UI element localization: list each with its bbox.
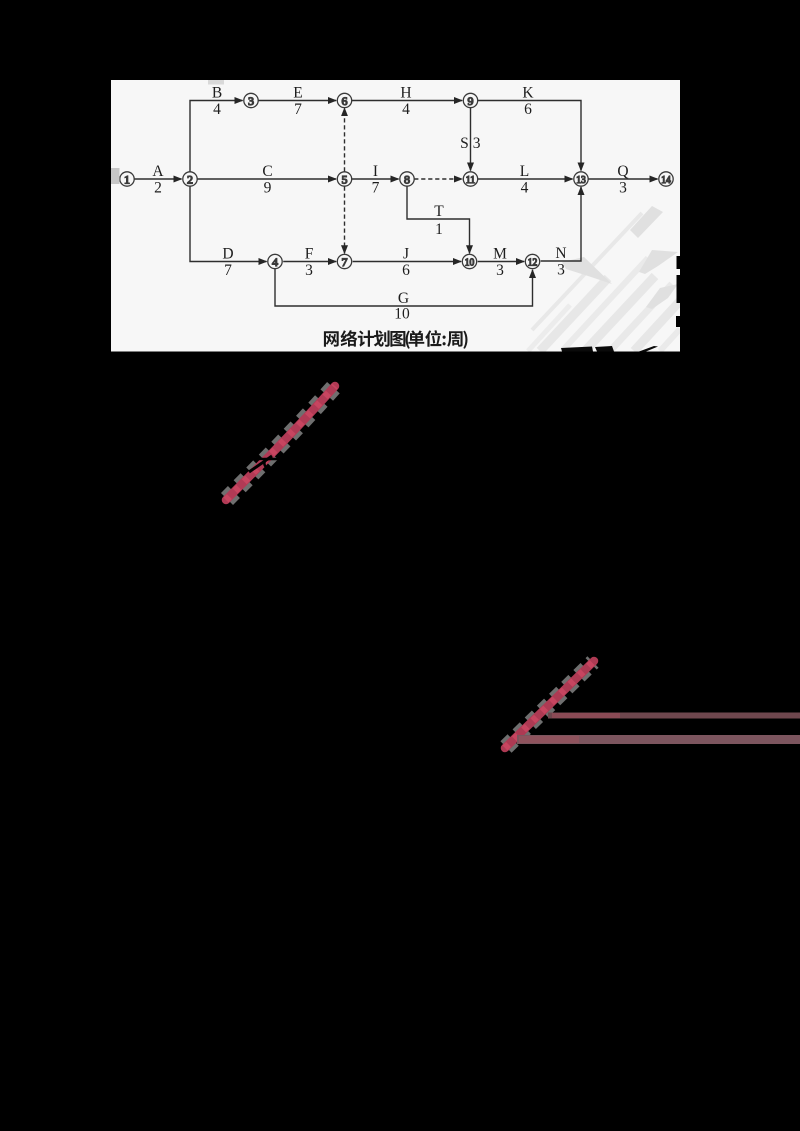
node 1 circle — [120, 172, 134, 186]
svg-text:7: 7 — [342, 255, 348, 269]
maroon band 1 — [548, 713, 800, 719]
svg-text:E: E — [293, 85, 302, 102]
svg-text:F: F — [305, 246, 314, 263]
node 7 circle — [337, 254, 351, 268]
node 9 circle — [463, 93, 477, 107]
svg-text:11: 11 — [466, 175, 476, 186]
node circles — [120, 93, 673, 268]
svg-text:7: 7 — [372, 180, 380, 197]
svg-text:N: N — [555, 245, 566, 262]
black squiggle loop — [264, 459, 270, 468]
svg-text:4: 4 — [402, 101, 410, 118]
white panel — [111, 80, 680, 352]
black squiggle slash — [249, 456, 272, 472]
svg-text:1: 1 — [124, 172, 130, 186]
node 14 circle — [659, 172, 673, 186]
svg-text:L: L — [520, 163, 529, 180]
node 3 circle — [244, 93, 258, 107]
red pen stroke upper (gray halo) — [227, 387, 334, 499]
svg-text:T: T — [434, 203, 444, 220]
svg-text:D: D — [222, 246, 233, 263]
svg-text:4: 4 — [521, 180, 529, 197]
svg-text:9: 9 — [468, 94, 474, 108]
maroon band 2 — [517, 735, 800, 744]
node 10 circle — [462, 254, 476, 268]
svg-text:3: 3 — [473, 135, 481, 152]
svg-text:9: 9 — [264, 180, 272, 197]
svg-text:1: 1 — [435, 221, 443, 238]
svg-text:2: 2 — [187, 172, 193, 186]
svg-text:I: I — [373, 163, 378, 180]
svg-text:J: J — [403, 246, 409, 263]
watermark strokes lower right — [528, 213, 680, 351]
svg-text:6: 6 — [524, 101, 532, 118]
svg-text:6: 6 — [342, 94, 348, 108]
svg-text:4: 4 — [213, 101, 221, 118]
svg-text:3: 3 — [619, 180, 627, 197]
svg-text:14: 14 — [661, 175, 671, 186]
svg-text:3: 3 — [305, 262, 313, 279]
gray smudge left edge near node 1 — [111, 168, 120, 184]
svg-text:13: 13 — [576, 175, 586, 186]
svg-text:5: 5 — [342, 172, 348, 186]
svg-text:10: 10 — [394, 306, 410, 323]
svg-text:10: 10 — [465, 258, 475, 269]
svg-text:G: G — [398, 290, 409, 307]
diagram wires and labels — [134, 85, 657, 323]
red pen stroke upper — [226, 386, 335, 500]
svg-text:7: 7 — [294, 101, 302, 118]
svg-text:B: B — [212, 85, 222, 102]
svg-text:7: 7 — [224, 262, 232, 279]
svg-text:12: 12 — [528, 258, 538, 269]
node 11 circle — [463, 172, 477, 186]
svg-text:A: A — [152, 163, 164, 180]
node 6 circle — [337, 93, 351, 107]
svg-text:2: 2 — [154, 180, 162, 197]
svg-text:H: H — [400, 85, 411, 102]
red pen stroke lower (gray halo) — [506, 662, 593, 747]
node 13 circle — [574, 172, 588, 186]
svg-text:M: M — [493, 246, 507, 263]
node 8 circle — [400, 172, 414, 186]
svg-text:4: 4 — [272, 255, 278, 269]
black intrusions at panel right edge — [676, 256, 681, 327]
red pen stroke lower — [505, 661, 594, 748]
svg-text:S: S — [460, 135, 469, 152]
svg-text:K: K — [522, 85, 534, 102]
red stroke lower bright segments — [505, 661, 594, 748]
node 4 circle — [268, 254, 282, 268]
cut-off glyph stubs at panel bottom edge — [561, 346, 658, 352]
maroon band 1 red smear — [552, 713, 620, 718]
svg-text:6: 6 — [402, 262, 410, 279]
svg-text:3: 3 — [248, 94, 254, 108]
red stroke bright segments — [226, 386, 335, 500]
svg-text:C: C — [262, 163, 272, 180]
svg-text:Q: Q — [617, 163, 628, 180]
svg-text:3: 3 — [557, 262, 565, 279]
black squiggle bar — [255, 458, 279, 461]
gray smudge top edge — [208, 80, 224, 85]
node 12 circle — [525, 254, 539, 268]
svg-text:8: 8 — [404, 172, 410, 186]
node 5 circle — [337, 172, 351, 186]
maroon band 2 red smear — [519, 736, 579, 743]
caption 网络计划图(单位:周) — [324, 330, 468, 349]
node 2 circle — [183, 172, 197, 186]
svg-text:3: 3 — [496, 262, 504, 279]
